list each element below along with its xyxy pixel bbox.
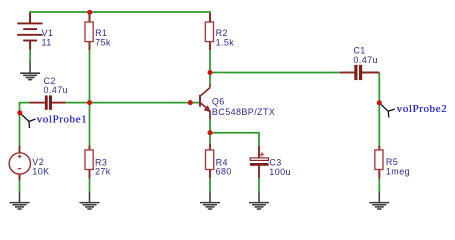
svg-text:0.47u: 0.47u: [353, 55, 378, 65]
resistor R2: [209, 13, 211, 23]
svg-text:1meg: 1meg: [386, 167, 410, 177]
ground under R5: [369, 192, 389, 209]
wire R4 to ground: [209, 178, 211, 193]
svg-text:100u: 100u: [269, 167, 291, 177]
ground under R3: [80, 192, 100, 209]
svg-text:11: 11: [42, 37, 52, 47]
svg-text:27k: 27k: [95, 167, 111, 177]
node dot R2 bottom: [208, 70, 213, 75]
wire mid rail R2 to C1: [210, 49, 340, 73]
wire emitter rail to C3: [210, 133, 259, 147]
svg-text:volProbe1: volProbe1: [37, 113, 88, 125]
ground under R4: [200, 192, 220, 209]
node dot probe1: [17, 110, 22, 115]
wire C2 right to column: [65, 102, 94, 104]
wire C2 left corner: [20, 103, 31, 147]
wire collector: [209, 73, 211, 85]
svg-text:680: 680: [216, 167, 232, 177]
resistor R3: [89, 146, 91, 151]
wire top rail: [30, 12, 210, 23]
ground under V2: [10, 192, 30, 209]
ground under C3: [249, 192, 269, 209]
node dot top R1: [87, 10, 92, 15]
node dot probe2: [377, 100, 382, 105]
svg-text:0.47u: 0.47u: [44, 85, 69, 95]
wire R5 to ground: [378, 178, 380, 193]
wire base rail: [90, 102, 200, 104]
node dot emitter: [208, 130, 213, 135]
wire R1-R3 column: [89, 12, 91, 22]
wire battery to ground: [29, 50, 31, 63]
wire V2 to ground: [19, 175, 21, 193]
svg-text:Q6: Q6: [212, 97, 225, 107]
node dot base: [188, 100, 193, 105]
node volProbe1: [21, 114, 36, 129]
svg-text:BC548BP/ZTX: BC548BP/ZTX: [212, 107, 275, 117]
capacitor C3: [258, 146, 260, 158]
wire C3 to ground: [258, 178, 260, 193]
svg-text:10K: 10K: [32, 166, 49, 176]
resistor R1: [89, 13, 91, 23]
svg-text:75k: 75k: [95, 37, 111, 47]
transistor Q6: [200, 84, 210, 120]
node dot C2 right: [87, 100, 92, 105]
resistor R4: [209, 144, 211, 151]
resistor R5: [378, 146, 380, 151]
svg-text:1.5k: 1.5k: [216, 37, 235, 47]
svg-text:volProbe2: volProbe2: [397, 103, 448, 115]
capacitor C1: [340, 72, 355, 74]
ground under battery: [20, 62, 40, 80]
wire C1 to output column: [378, 73, 380, 148]
capacitor C2: [30, 102, 45, 104]
battery V1: [17, 13, 42, 50]
source V2: [9, 153, 30, 174]
node volProbe2: [380, 104, 395, 118]
wire emitter down: [209, 119, 211, 144]
